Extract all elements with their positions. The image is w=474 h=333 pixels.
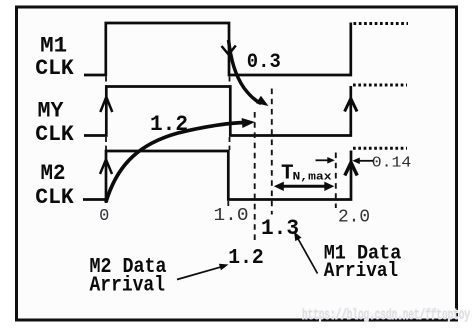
svg-text:1.3: 1.3 [261, 216, 299, 241]
waveform M1 CLK dotted high [354, 22, 409, 25]
svg-text:Arrival: Arrival [324, 260, 398, 283]
up arrow on MY CLK rising edge t=2.0 [345, 99, 357, 112]
svg-text:CLK: CLK [35, 185, 74, 210]
waveform M2 CLK dotted high [353, 147, 407, 150]
up arrow on M2 CLK rising edge t=0 [100, 160, 112, 175]
dashed line t=1.3 [271, 89, 273, 215]
down arrow on M1 CLK falling edge t=1.0 [222, 46, 236, 55]
waveform M2 CLK [83, 151, 351, 200]
M2 edge tick below low at t=0 [105, 200, 108, 204]
svg-text:1.0: 1.0 [214, 206, 249, 226]
svg-text:Arrival: Arrival [90, 274, 166, 297]
svg-text:1.2: 1.2 [228, 246, 264, 270]
curved arrow 0.3 from M1 falling edge to t=1.3 [229, 40, 262, 104]
dashed line t=1.86 [335, 153, 337, 209]
0.14 right-pointing arrow into dashed line [316, 159, 329, 161]
M2 Data Arrival pointer arrow [177, 267, 222, 280]
waveform MY CLK [84, 86, 351, 136]
svg-text:0.14: 0.14 [372, 154, 412, 171]
svg-text:2.0: 2.0 [338, 208, 370, 228]
curved arrow 1.2 from M2 rising edge to t=1.2 [106, 123, 245, 203]
svg-text:N,max: N,max [293, 172, 332, 184]
M1 Data Arrival pointer arrow [297, 236, 318, 274]
dashed line t=1.0 [228, 77, 229, 207]
svg-text:CLK: CLK [35, 56, 74, 81]
up arrow on M2 CLK rising edge t=2.0 [345, 163, 357, 176]
waveform MY CLK dotted high [353, 84, 407, 87]
svg-text:M1: M1 [40, 34, 67, 59]
svg-text:https://blog.csdn.net/fftoptoy: https://blog.csdn.net/fftoptoy [302, 308, 470, 324]
svg-text:0.3: 0.3 [247, 51, 281, 74]
up arrow on MY CLK rising edge t=0 [100, 97, 112, 112]
svg-text:0: 0 [99, 207, 109, 226]
svg-text:M2: M2 [41, 161, 66, 186]
dashed line t=1.2 [254, 112, 256, 244]
dashed line t=0 [105, 77, 107, 151]
Tnmax double arrow [280, 185, 328, 188]
svg-text:CLK: CLK [35, 122, 74, 147]
svg-text:1.2: 1.2 [150, 112, 188, 137]
svg-text:MY: MY [38, 99, 65, 124]
0.14 left-pointing arrow into 2.0 edge [358, 160, 374, 162]
waveform M1 CLK [84, 23, 351, 76]
